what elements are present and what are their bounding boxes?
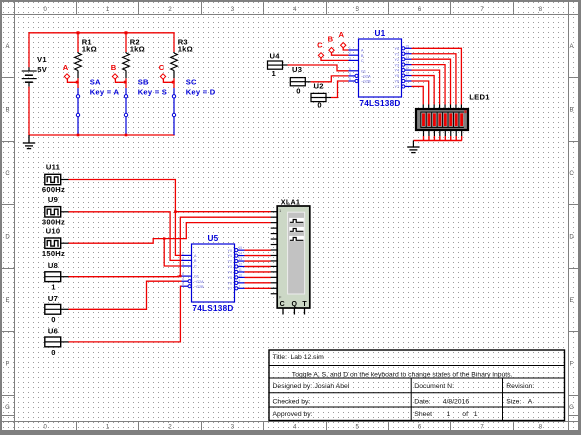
svg-text:XLA1: XLA1 xyxy=(281,198,300,207)
svg-text:C: C xyxy=(5,171,10,177)
svg-text:C: C xyxy=(317,40,323,49)
svg-text:74LS138D: 74LS138D xyxy=(192,304,233,313)
svg-text:Y6: Y6 xyxy=(394,80,399,84)
svg-text:1kΩ: 1kΩ xyxy=(82,45,97,54)
svg-text:Lab 12.sim: Lab 12.sim xyxy=(291,354,325,361)
svg-text:A: A xyxy=(528,398,533,405)
svg-text:U11: U11 xyxy=(46,163,61,172)
svg-text:7: 7 xyxy=(239,284,241,288)
svg-text:G1: G1 xyxy=(361,69,366,73)
svg-text:U1: U1 xyxy=(375,29,386,38)
svg-text:2: 2 xyxy=(182,256,184,260)
svg-text:3: 3 xyxy=(349,56,351,60)
svg-text:U8: U8 xyxy=(48,261,58,270)
svg-text:B: B xyxy=(111,63,117,72)
svg-text:~G2A: ~G2A xyxy=(361,75,371,79)
svg-text:G: G xyxy=(5,405,10,411)
svg-text:A: A xyxy=(339,30,345,39)
svg-text:B: B xyxy=(328,35,334,44)
svg-text:of: of xyxy=(462,411,468,418)
svg-text:1: 1 xyxy=(272,69,277,78)
svg-text:G1: G1 xyxy=(194,275,199,279)
svg-text:600Hz: 600Hz xyxy=(42,185,65,194)
svg-text:SB: SB xyxy=(138,78,149,87)
svg-text:12: 12 xyxy=(406,61,410,65)
svg-text:9: 9 xyxy=(239,279,241,283)
svg-text:Y3: Y3 xyxy=(394,63,399,67)
svg-text:Key = S: Key = S xyxy=(138,88,167,97)
svg-text:U5: U5 xyxy=(208,234,219,243)
svg-text:9: 9 xyxy=(406,77,408,81)
svg-text:1: 1 xyxy=(51,283,56,292)
svg-text:A: A xyxy=(5,44,9,50)
svg-text:U6: U6 xyxy=(48,326,58,335)
svg-text:C: C xyxy=(194,265,197,269)
svg-text:G: G xyxy=(569,405,574,411)
svg-text:12: 12 xyxy=(239,263,243,267)
svg-text:Checked by:: Checked by: xyxy=(273,398,311,405)
svg-text:14: 14 xyxy=(406,50,410,54)
svg-text:Y7: Y7 xyxy=(227,287,232,291)
svg-text:4: 4 xyxy=(182,277,184,281)
svg-text:D: D xyxy=(5,235,10,241)
svg-text:Y5: Y5 xyxy=(227,276,232,280)
svg-text:C: C xyxy=(569,171,574,177)
svg-text:1: 1 xyxy=(279,209,281,213)
svg-text:0: 0 xyxy=(317,101,321,110)
svg-text:A: A xyxy=(569,44,573,50)
svg-text:D: D xyxy=(569,235,574,241)
svg-text:F: F xyxy=(6,362,10,368)
svg-text:U7: U7 xyxy=(48,294,58,303)
svg-text:10: 10 xyxy=(406,72,410,76)
svg-text:Document N:: Document N: xyxy=(414,383,454,390)
svg-text:U9: U9 xyxy=(48,195,58,204)
svg-text:U2: U2 xyxy=(314,81,324,90)
svg-text:C: C xyxy=(280,301,285,308)
svg-text:0: 0 xyxy=(51,315,55,324)
svg-text:Q: Q xyxy=(291,301,297,308)
svg-text:Y2: Y2 xyxy=(394,58,399,62)
svg-text:11: 11 xyxy=(406,66,410,70)
svg-text:E: E xyxy=(5,298,9,304)
svg-text:V1: V1 xyxy=(37,55,47,64)
svg-text:B: B xyxy=(569,108,573,114)
svg-text:A: A xyxy=(63,63,69,72)
svg-text:15: 15 xyxy=(239,246,243,250)
svg-text:4: 4 xyxy=(349,72,351,76)
svg-text:C: C xyxy=(159,63,165,72)
svg-text:F: F xyxy=(570,362,574,368)
svg-text:1kΩ: 1kΩ xyxy=(178,45,193,54)
svg-text:Date:: Date: xyxy=(414,398,430,405)
svg-text:Y0: Y0 xyxy=(227,249,232,253)
svg-text:Y4: Y4 xyxy=(227,271,232,275)
svg-text:Josiah Abel: Josiah Abel xyxy=(315,383,350,390)
svg-text:~G2B: ~G2B xyxy=(361,80,371,84)
svg-text:11: 11 xyxy=(239,268,243,272)
svg-text:Y1: Y1 xyxy=(227,254,232,258)
svg-text:Toggle A, S, and D on the keyb: Toggle A, S, and D on the keyboard to ch… xyxy=(292,372,513,379)
svg-text:5: 5 xyxy=(349,77,351,81)
svg-text:U4: U4 xyxy=(270,51,281,60)
svg-text:U10: U10 xyxy=(46,226,61,235)
svg-text:Y3: Y3 xyxy=(227,265,232,269)
svg-text:Y1: Y1 xyxy=(394,52,399,56)
svg-text:LED1: LED1 xyxy=(469,93,490,102)
svg-text:F: F xyxy=(279,296,281,300)
svg-text:10: 10 xyxy=(239,273,243,277)
svg-text:Size:: Size: xyxy=(506,398,521,405)
svg-text:2: 2 xyxy=(349,51,351,55)
svg-text:1: 1 xyxy=(349,46,351,50)
svg-text:0: 0 xyxy=(296,87,300,96)
svg-text:1: 1 xyxy=(182,251,184,255)
svg-text:C: C xyxy=(361,59,364,63)
svg-text:150Hz: 150Hz xyxy=(42,249,65,258)
svg-text:T: T xyxy=(302,301,307,308)
svg-text:Key = A: Key = A xyxy=(90,88,120,97)
svg-text:Sheet: Sheet xyxy=(414,411,432,418)
svg-text:14: 14 xyxy=(239,252,243,256)
svg-text:B: B xyxy=(5,108,9,114)
svg-text:6: 6 xyxy=(349,67,351,71)
svg-text:5V: 5V xyxy=(37,65,47,74)
svg-text:Y6: Y6 xyxy=(227,281,232,285)
svg-text:Y0: Y0 xyxy=(394,47,399,51)
svg-text:1kΩ: 1kΩ xyxy=(130,45,145,54)
svg-text:Y2: Y2 xyxy=(227,260,232,264)
svg-text:SA: SA xyxy=(90,78,101,87)
svg-text:Title:: Title: xyxy=(273,354,288,361)
svg-text:4/8/2016: 4/8/2016 xyxy=(443,398,470,405)
svg-text:Y5: Y5 xyxy=(394,74,399,78)
svg-text:5: 5 xyxy=(182,282,184,286)
svg-text:Designed by:: Designed by: xyxy=(273,383,313,390)
svg-text:7: 7 xyxy=(406,82,408,86)
svg-text:1: 1 xyxy=(474,411,478,418)
svg-text:74LS138D: 74LS138D xyxy=(359,99,400,108)
svg-text:Y7: Y7 xyxy=(394,85,399,89)
svg-text:6: 6 xyxy=(182,272,184,276)
svg-text:13: 13 xyxy=(406,55,410,59)
svg-text:~G2B: ~G2B xyxy=(194,285,204,289)
svg-text:E: E xyxy=(569,298,573,304)
svg-text:15: 15 xyxy=(406,44,410,48)
svg-text:1: 1 xyxy=(447,411,451,418)
svg-text:Revision:: Revision: xyxy=(506,383,534,390)
svg-text:Approved by:: Approved by: xyxy=(273,411,313,418)
svg-text:3: 3 xyxy=(182,262,184,266)
svg-text:~G2A: ~G2A xyxy=(194,280,204,284)
svg-text:300Hz: 300Hz xyxy=(42,217,65,226)
svg-text:Y4: Y4 xyxy=(394,69,399,73)
svg-text:U3: U3 xyxy=(292,65,302,74)
svg-text:13: 13 xyxy=(239,257,243,261)
svg-text:SC: SC xyxy=(186,78,197,87)
svg-text:0: 0 xyxy=(51,348,55,357)
svg-text:Key = D: Key = D xyxy=(186,88,216,97)
